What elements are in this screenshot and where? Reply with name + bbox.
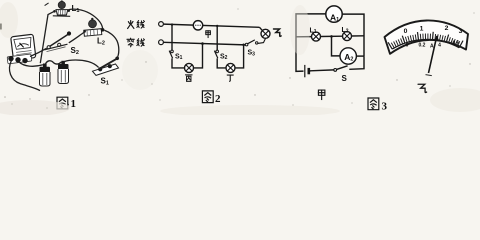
svg-text:0.6: 0.6 — [453, 40, 460, 46]
svg-text:L1: L1 — [310, 27, 317, 35]
scan mottle — [0, 2, 480, 117]
lamp L1 — [312, 32, 321, 41]
wire S1 to L2 — [104, 30, 118, 59]
A2 branch — [332, 36, 341, 56]
label 甲 — [206, 31, 211, 38]
wire between cells — [45, 61, 61, 64]
svg-text:S1: S1 — [101, 77, 109, 87]
svg-text:0: 0 — [406, 43, 409, 49]
svg-text:2: 2 — [215, 93, 221, 105]
junction node — [330, 35, 333, 38]
label 零线 — [127, 38, 134, 47]
lamp 乙 — [261, 29, 270, 38]
hook mark near L1 — [45, 3, 49, 6]
switch S1 — [93, 57, 119, 76]
scale numbers outer — [404, 25, 463, 35]
battery cell 2 — [58, 61, 69, 84]
live wire — [164, 24, 260, 27]
dial outline — [385, 20, 469, 53]
neutral wire — [164, 42, 246, 45]
needle — [429, 36, 437, 73]
switch S2 — [216, 50, 219, 53]
caption 图2 — [202, 91, 213, 103]
switch S2 — [45, 31, 72, 51]
caption 乙 — [418, 84, 427, 92]
lamp L2 — [343, 32, 352, 41]
svg-text:2: 2 — [445, 25, 449, 32]
caption 图1 — [57, 97, 68, 109]
switch S — [334, 69, 337, 72]
scale numbers inner — [406, 40, 460, 49]
svg-text:L2: L2 — [342, 27, 349, 35]
lamp 丁 — [226, 63, 235, 72]
svg-text:1: 1 — [71, 98, 77, 110]
scale ticks — [392, 39, 459, 49]
caption 图3 — [368, 98, 379, 110]
svg-text:0: 0 — [404, 28, 408, 35]
branch2 vertical — [217, 26, 226, 68]
wire S2 left to meter — [30, 48, 47, 56]
live terminal — [159, 22, 164, 27]
wire meter to cell1 — [19, 62, 43, 66]
svg-text:S1: S1 — [175, 53, 183, 61]
branch2 return — [235, 45, 244, 68]
svg-text:1: 1 — [420, 26, 424, 33]
ammeter A1 — [326, 6, 342, 22]
wire cell2 to S1 — [64, 60, 98, 67]
wire L1 left to cell1 — [40, 12, 54, 64]
svg-text:L2: L2 — [97, 37, 105, 47]
scan speckles — [0, 8, 475, 108]
wire L2 left to S2 — [69, 32, 84, 42]
caption 甲 — [318, 90, 324, 99]
meter (galvanometer) body — [11, 34, 36, 60]
label 火线 — [128, 21, 134, 29]
middle wire — [296, 36, 364, 37]
svg-text:3: 3 — [382, 101, 388, 113]
svg-text:S3: S3 — [248, 50, 256, 58]
svg-text:4: 4 — [438, 42, 441, 48]
switch S3 — [245, 43, 248, 46]
neutral terminal — [159, 40, 164, 45]
lamp L2 bulb and base — [83, 18, 104, 36]
switch S1 — [171, 50, 174, 53]
svg-text:0.2: 0.2 — [419, 42, 426, 48]
branch1 vertical from live — [172, 24, 185, 68]
wire L1 right to L2 right terminal — [69, 9, 103, 28]
svg-text:S2: S2 — [71, 46, 79, 56]
ammeter A2 — [340, 48, 356, 64]
energy meter 甲 — [193, 21, 202, 30]
meter terminal posts — [7, 54, 32, 64]
lamp L1 bulb and base — [53, 0, 70, 16]
svg-text:S2: S2 — [220, 53, 228, 61]
lamp 丙 — [185, 63, 194, 72]
battery — [304, 65, 306, 77]
battery cell 1 — [40, 64, 51, 87]
branch1 return — [194, 44, 203, 68]
svg-text:S: S — [342, 74, 348, 83]
wire bottom loop from meter — [9, 61, 40, 91]
svg-text:3: 3 — [459, 28, 463, 35]
outer loop — [296, 14, 326, 72]
wire to lamp yi — [260, 27, 263, 30]
